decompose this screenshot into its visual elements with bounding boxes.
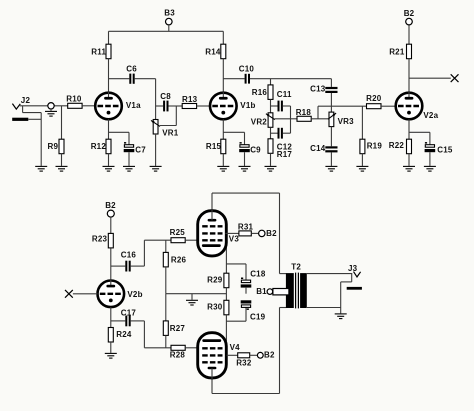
svg-text:VR2: VR2 bbox=[251, 117, 268, 126]
svg-text:V2a: V2a bbox=[423, 111, 438, 120]
svg-text:R32: R32 bbox=[236, 358, 252, 367]
svg-text:T2: T2 bbox=[291, 263, 301, 272]
svg-text:R29: R29 bbox=[207, 276, 223, 285]
svg-text:R11: R11 bbox=[91, 47, 106, 56]
svg-text:R24: R24 bbox=[116, 330, 132, 339]
svg-text:V3: V3 bbox=[229, 235, 240, 244]
svg-text:R15: R15 bbox=[206, 142, 222, 151]
svg-text:C10: C10 bbox=[239, 65, 255, 74]
svg-text:R31: R31 bbox=[238, 223, 254, 232]
svg-text:B3: B3 bbox=[164, 8, 175, 17]
svg-text:R28: R28 bbox=[170, 351, 186, 360]
svg-text:VR1: VR1 bbox=[162, 128, 179, 137]
svg-text:V1a: V1a bbox=[126, 101, 141, 110]
svg-text:B2: B2 bbox=[105, 201, 116, 210]
svg-text:B2: B2 bbox=[266, 229, 277, 238]
svg-text:C8: C8 bbox=[160, 92, 171, 101]
svg-text:R16: R16 bbox=[252, 88, 268, 97]
svg-text:C18: C18 bbox=[250, 269, 266, 278]
svg-text:R19: R19 bbox=[367, 142, 383, 151]
svg-text:B2: B2 bbox=[264, 350, 275, 359]
svg-text:R12: R12 bbox=[91, 142, 107, 151]
svg-text:R25: R25 bbox=[170, 228, 186, 237]
svg-text:R21: R21 bbox=[389, 47, 405, 56]
svg-text:C16: C16 bbox=[121, 251, 137, 260]
svg-text:C15: C15 bbox=[437, 145, 453, 154]
svg-text:R22: R22 bbox=[389, 141, 405, 150]
svg-text:B2: B2 bbox=[404, 9, 415, 18]
svg-text:R10: R10 bbox=[66, 95, 82, 104]
svg-text:R9: R9 bbox=[48, 142, 59, 151]
svg-text:V2b: V2b bbox=[127, 290, 142, 299]
svg-text:R13: R13 bbox=[182, 95, 198, 104]
svg-text:R23: R23 bbox=[92, 235, 108, 244]
svg-text:C7: C7 bbox=[135, 146, 146, 155]
svg-text:R26: R26 bbox=[171, 255, 187, 264]
svg-text:B1: B1 bbox=[256, 287, 267, 296]
svg-text:C17: C17 bbox=[121, 308, 137, 317]
svg-text:C11: C11 bbox=[277, 90, 292, 99]
svg-text:C19: C19 bbox=[250, 312, 266, 321]
svg-text:R20: R20 bbox=[366, 94, 382, 103]
svg-text:V4: V4 bbox=[230, 343, 241, 352]
svg-text:R18: R18 bbox=[296, 108, 312, 117]
svg-text:C9: C9 bbox=[250, 146, 261, 155]
svg-text:VR3: VR3 bbox=[338, 117, 355, 126]
svg-text:R27: R27 bbox=[170, 324, 186, 333]
svg-text:C12: C12 bbox=[277, 142, 293, 151]
svg-text:J3: J3 bbox=[348, 264, 358, 273]
svg-text:R30: R30 bbox=[207, 303, 223, 312]
svg-text:C14: C14 bbox=[310, 144, 326, 153]
svg-text:C6: C6 bbox=[126, 65, 137, 74]
svg-text:C13: C13 bbox=[310, 84, 326, 93]
svg-text:J2: J2 bbox=[21, 96, 31, 105]
svg-text:V1b: V1b bbox=[240, 101, 255, 110]
svg-text:R14: R14 bbox=[205, 47, 221, 56]
